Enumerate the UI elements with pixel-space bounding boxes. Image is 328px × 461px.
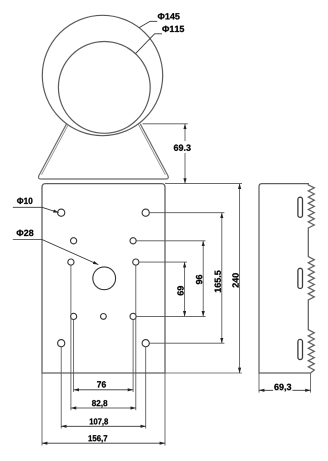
hole top-left D10 bbox=[58, 209, 65, 216]
extension line hole row5 right down bbox=[145, 347, 147, 429]
inner circle D115 bbox=[58, 42, 150, 134]
hole row2 right bbox=[130, 238, 136, 244]
label 69.3 bbox=[174, 145, 191, 151]
connector row1 right bbox=[149, 212, 224, 214]
label 107,8 bbox=[90, 418, 108, 425]
dimension 156.7 line bbox=[42, 442, 165, 444]
side view outline with serrated edge bbox=[259, 184, 314, 373]
hole row2 left bbox=[71, 238, 77, 244]
slot 1 bbox=[298, 197, 303, 217]
label 82,8 bbox=[92, 400, 107, 407]
leader line D145 bbox=[139, 21, 157, 27]
label D28 bbox=[17, 230, 34, 236]
hole row3 right bbox=[133, 259, 139, 265]
leader arrow D10 bbox=[42, 207, 59, 212]
extension line hole row4 right down bbox=[132, 320, 134, 393]
hole D28 center bbox=[93, 267, 116, 290]
leader arrow D28 bbox=[42, 240, 98, 265]
label 156,7 bbox=[88, 435, 107, 442]
connector plate bottom right bbox=[165, 372, 242, 374]
label 69 rotated bbox=[177, 286, 183, 295]
dimension 165.5 vertical line bbox=[221, 213, 223, 344]
extension line hole row3 right down bbox=[135, 265, 137, 410]
dimension 76 line bbox=[74, 389, 134, 391]
hole row5 left bbox=[58, 340, 65, 347]
hole row4 left bbox=[71, 313, 77, 319]
stand inner line left bbox=[42, 125, 69, 175]
label D115 bbox=[162, 26, 184, 32]
dimension 240 vertical line bbox=[239, 184, 241, 373]
stand trapezoid outline bbox=[39, 124, 169, 179]
label 69,3 bbox=[273, 382, 293, 391]
connector row4 right bbox=[136, 315, 205, 317]
connector row3 right bbox=[139, 261, 187, 263]
connector row5 right bbox=[149, 342, 224, 344]
label D10 bbox=[17, 198, 32, 204]
extension line hole row4 left down bbox=[73, 320, 75, 393]
slot 3 bbox=[298, 339, 303, 359]
dimension 69.3 line lower bbox=[184, 153, 186, 184]
dimension 69,3 line bbox=[259, 389, 311, 391]
extension line side right down bbox=[310, 374, 312, 393]
label 240 rotated bbox=[232, 273, 238, 287]
label 76 bbox=[97, 381, 106, 387]
extension line hole row5 left down bbox=[60, 347, 62, 429]
hole row5 right bbox=[142, 340, 149, 347]
dimension 69.3 extension line bbox=[143, 123, 188, 125]
label D145 bbox=[158, 13, 180, 19]
dimension 69 vertical line bbox=[184, 262, 186, 316]
label 165.5 rotated bbox=[215, 270, 221, 292]
hole row4 middle bbox=[101, 314, 107, 320]
extension line plate left down bbox=[41, 373, 43, 446]
dimension 82.8 line bbox=[71, 407, 136, 409]
connector row2 right bbox=[136, 240, 205, 242]
hole row4 right bbox=[130, 313, 136, 319]
leader line D10 bbox=[13, 206, 42, 208]
label 96 rotated bbox=[196, 275, 202, 284]
extension line side left down bbox=[258, 374, 260, 393]
extension line plate right down bbox=[164, 373, 166, 446]
dimension 96 vertical line bbox=[202, 241, 204, 317]
outer circle D145 bbox=[42, 15, 162, 135]
stand inner line right bbox=[139, 125, 166, 175]
leader line D115 bbox=[136, 34, 162, 54]
dimension 69.3 line upper bbox=[184, 124, 186, 141]
connector plate top right bbox=[165, 183, 242, 185]
extension line hole row3 left down bbox=[70, 265, 72, 410]
hole row3 left bbox=[68, 259, 74, 265]
leader line D28 bbox=[13, 239, 42, 241]
mounting plate front view bbox=[42, 184, 165, 373]
slot 2 bbox=[298, 268, 303, 288]
dimension 107.8 line bbox=[61, 425, 146, 427]
hole top-right D10 bbox=[142, 209, 149, 216]
